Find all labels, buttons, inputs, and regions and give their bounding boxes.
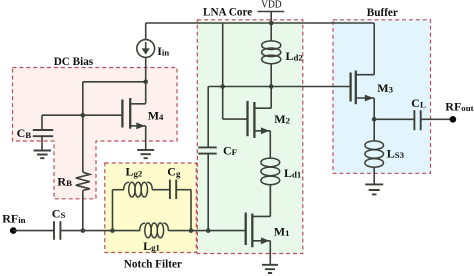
wire Iin bottom lead: [145, 57, 147, 81]
transistor M1: [246, 185, 290, 265]
node Ld2 bottom: [269, 84, 274, 89]
svg-text:Buffer: Buffer: [367, 7, 398, 19]
wire notch upper branch left: [113, 189, 125, 191]
ground under CB: [34, 151, 51, 159]
wire Lg2 to Cg: [152, 189, 170, 191]
wire CS to notch: [60, 230, 112, 232]
wire notch lower branch left: [113, 230, 141, 232]
LNA Core box: [197, 20, 302, 254]
node gate row junction: [81, 113, 86, 118]
svg-text:Notch Filter: Notch Filter: [124, 259, 182, 271]
capacitor Cg: [167, 165, 181, 199]
wire notch left riser: [112, 190, 114, 231]
svg-text:VDD: VDD: [261, 0, 282, 11]
RFin terminal: [2, 212, 25, 234]
RFout terminal: [445, 99, 473, 122]
DC Bias box: [13, 68, 178, 199]
inductor Ld2: [262, 23, 304, 87]
wire Cg to right riser: [176, 189, 191, 191]
svg-text:LNA Core: LNA Core: [203, 7, 252, 19]
wire RFin to CS: [13, 230, 54, 232]
wire CL to RFout: [421, 118, 450, 120]
node CF bottom: [206, 228, 211, 233]
wire M4 gate row: [42, 114, 121, 116]
wire M2 gate drop: [223, 23, 248, 119]
capacitor CF: [198, 87, 237, 231]
wire VDD rail: [146, 22, 375, 24]
wire notch to M1 gate: [191, 230, 246, 232]
wire notch right riser: [190, 190, 192, 231]
ground under M1: [262, 265, 278, 273]
ground under Ls3: [365, 184, 383, 194]
wire Iin top lead: [145, 23, 147, 40]
inductor Lg1: [140, 223, 169, 253]
current source Iin: [137, 40, 170, 58]
capacitor CL: [411, 96, 426, 130]
Notch Filter box: [105, 163, 197, 253]
VDD symbol: [258, 0, 285, 23]
transistor M4: [122, 82, 164, 150]
transistor M2: [248, 87, 291, 159]
inductor Ld1: [261, 158, 301, 216]
inductor Ls3: [365, 119, 405, 184]
ground under M4: [137, 150, 154, 158]
inductor Lg2: [124, 165, 153, 197]
svg-text:DC Bias: DC Bias: [54, 56, 94, 68]
node RB junction: [81, 228, 86, 233]
Buffer box: [333, 20, 431, 174]
node M2 gate bus: [220, 84, 225, 89]
transistor M3: [351, 23, 394, 119]
wire gate bus y=86.5: [208, 86, 350, 88]
wire bias horizontal: [83, 81, 146, 83]
node VDD rail: [269, 21, 274, 26]
capacitor CS: [52, 207, 66, 240]
wire Lg1 to right junction: [168, 230, 191, 232]
node bias junction: [143, 80, 148, 85]
wire M3 source to CL: [374, 118, 414, 120]
node notch right: [189, 228, 194, 233]
node notch left: [110, 228, 115, 233]
capacitor CB: [17, 115, 54, 149]
node M3 source: [372, 117, 377, 122]
resistor RB: [57, 115, 89, 230]
wire bias left vertical: [82, 82, 84, 115]
